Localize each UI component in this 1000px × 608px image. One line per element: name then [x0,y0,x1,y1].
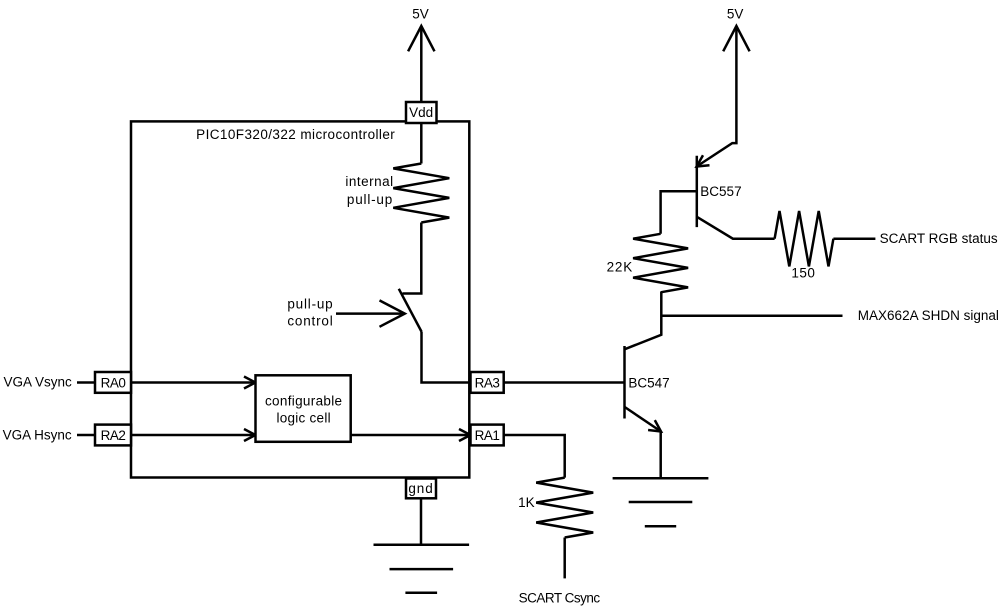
svg-text:1K: 1K [518,495,535,510]
microcontroller outline U1 [131,121,469,477]
wire VGA Vsync stub [77,381,96,384]
wire 22K to BC557 base [661,191,697,234]
svg-text:RA0: RA0 [101,376,126,391]
svg-text:internal: internal [345,174,393,189]
svg-text:RA3: RA3 [475,376,500,391]
resistor internal pull-up [393,164,449,223]
wire logic cell to RA1 [351,434,469,437]
svg-text:22K: 22K [607,259,633,274]
wire gnd to ground [420,498,423,545]
svg-text:BC547: BC547 [628,376,669,391]
svg-text:gnd: gnd [408,481,433,496]
transistor Q2 collector [697,217,775,239]
transistor Q2 BC557 base bar [696,156,699,227]
svg-text:BC557: BC557 [700,184,741,199]
wire emitter to ground [659,432,662,479]
power arrow 5V (right) [723,26,749,51]
transistor Q1 BC547 base bar [623,346,626,419]
wire RA3 to BC547 base [504,381,625,384]
resistor R 150 [775,211,834,266]
svg-text:RA1: RA1 [475,428,500,443]
svg-text:5V: 5V [412,6,429,21]
arrowhead into logic cell (top) [244,377,256,389]
transistor Q1 emitter [625,407,662,432]
svg-text:pull-up: pull-up [287,297,333,312]
pin box Vdd [406,102,437,123]
pin box gnd [406,479,436,499]
svg-text:MAX662A SHDN signal: MAX662A SHDN signal [858,308,999,323]
pin box RA0 [95,372,131,393]
svg-text:SCART RGB status: SCART RGB status [880,231,998,246]
wire 1K to SCART Csync [563,538,566,579]
svg-text:logic cell: logic cell [277,411,331,426]
wire RA1 to 1K resistor [504,435,565,478]
switch SW1 jog [403,292,422,293]
svg-text:configurable: configurable [265,393,342,408]
arrowhead into logic cell (bottom) [244,429,256,441]
svg-text:VGA Vsync: VGA Vsync [4,374,73,389]
transistor Q2 emitter arrowhead [697,155,710,166]
wire RA2 to logic cell [131,434,254,437]
arrowhead into RA1 [459,429,471,441]
wire MAX662A SHDN signal [661,315,843,318]
svg-text:Vdd: Vdd [409,105,433,120]
ground (BC547 emitter) [613,477,709,480]
wire Vdd to pull-up resistor [420,123,423,164]
pin box RA1 [471,425,504,446]
wire VGA Hsync stub [77,434,96,437]
switch SW1 blade [399,289,422,332]
arrow pull-up control [336,312,403,315]
svg-text:RA2: RA2 [101,428,126,443]
svg-text:PIC10F320/322 microcontroller: PIC10F320/322 microcontroller [196,127,395,142]
wire switch to RA3 [422,332,471,383]
resistor R 22K [633,234,688,292]
ground (gnd pin) [374,544,470,547]
svg-text:SCART Csync: SCART Csync [519,591,601,606]
pin box RA2 [95,425,131,446]
svg-text:pull-up: pull-up [347,192,393,207]
svg-text:control: control [287,313,333,328]
wire pull-up resistor to switch [420,223,423,294]
svg-text:VGA Hsync: VGA Hsync [3,428,72,443]
resistor R 1K [536,478,593,538]
svg-text:5V: 5V [727,6,744,21]
transistor Q1 collector [625,292,662,349]
pin box RA3 [471,372,504,393]
power arrow 5V (left) [420,26,423,102]
svg-text:150: 150 [791,266,815,281]
transistor Q1 emitter arrowhead [648,420,661,431]
wire 150 to SCART RGB status [833,237,875,240]
wire RA0 to logic cell [131,381,254,384]
configurable logic cell box [256,375,351,442]
transistor Q2 emitter [697,26,737,167]
